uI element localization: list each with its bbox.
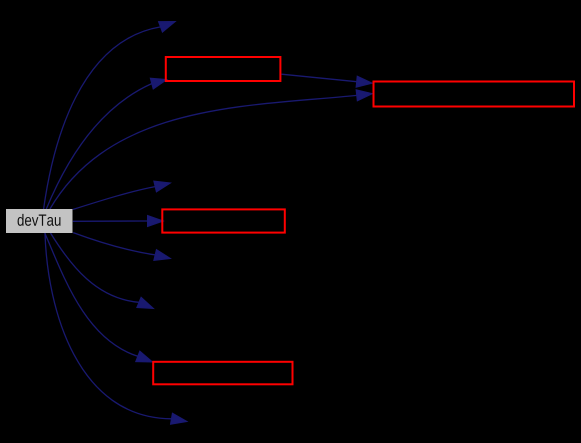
edge devTau->node5	[73, 181, 171, 209]
edge devTau->node9	[45, 233, 153, 362]
edge devTau->node3	[46, 78, 167, 209]
edge devTau->node2	[44, 22, 176, 210]
node6 (red box middle)	[162, 209, 284, 232]
node4 (red box right)	[374, 82, 575, 107]
edge devTau->node6	[73, 215, 164, 226]
edge devTau->node4	[50, 90, 373, 209]
node9 (red box bottom)	[153, 362, 292, 385]
edge devTau->node10	[45, 233, 187, 424]
edge devTau->node8	[51, 233, 154, 309]
edge node3->node4	[282, 74, 373, 87]
node3 (red box top)	[166, 57, 281, 81]
edge devTau->node7	[73, 233, 170, 261]
node devTau	[6, 209, 73, 233]
